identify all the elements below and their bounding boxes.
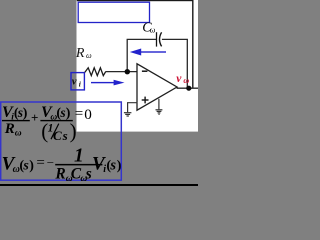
- svg-text:R: R: [54, 166, 65, 183]
- wire: capacitor to right: [162, 38, 188, 40]
- blue current arrow (left) above op-amp: [130, 49, 166, 56]
- blue signal arrow (right) toward op-amp: [91, 80, 125, 86]
- eq2 fraction bar: [55, 164, 102, 166]
- svg-text:0: 0: [84, 106, 92, 123]
- svg-text:ω: ω: [15, 128, 22, 138]
- op-amp U1 triangle: [137, 64, 177, 110]
- svg-text:s: s: [109, 158, 116, 174]
- wire: feedback vertical down to output node: [186, 39, 188, 88]
- svg-text:ω: ω: [150, 25, 156, 34]
- ground (op-amp): [156, 110, 163, 115]
- svg-text:R: R: [4, 121, 15, 137]
- white schematic panel: [77, 0, 199, 132]
- wire: op-amp belly ground stem: [158, 99, 160, 110]
- resistor R1 zigzag: [85, 68, 106, 76]
- output label v_o (red): [176, 73, 189, 85]
- svg-text:C: C: [53, 128, 62, 143]
- gray page background: [0, 0, 198, 186]
- svg-text:s: s: [59, 105, 65, 120]
- svg-text:=: =: [75, 106, 83, 122]
- node: inverting input junction: [125, 69, 130, 74]
- svg-text:s: s: [62, 128, 68, 143]
- op-amp plus sign: [142, 99, 149, 101]
- svg-text:): ): [29, 159, 34, 174]
- equation callout box (blue border): [1, 102, 122, 180]
- bottom black border: [0, 184, 198, 186]
- capacitor C1 label C_w: [142, 20, 156, 35]
- node: output junction: [186, 86, 191, 91]
- wire: feedback horizontal to capacitor: [127, 38, 156, 40]
- svg-text:v: v: [176, 73, 182, 85]
- svg-text:ω: ω: [183, 76, 189, 85]
- svg-text:−: −: [47, 155, 54, 170]
- eq1 fraction bar 2: [40, 120, 72, 121]
- v_i text: [72, 76, 82, 89]
- svg-text:1: 1: [74, 146, 84, 167]
- svg-text:ω: ω: [86, 51, 92, 60]
- op-amp minus sign: [142, 70, 148, 72]
- wire: output: [177, 87, 198, 89]
- capacitor C1 right curved plate: [160, 32, 162, 46]
- svg-text:+: +: [31, 110, 38, 125]
- capacitor C1 left plate: [156, 32, 158, 46]
- equation 2: Vw(s) = -1/(RwCws) Vi(s): [2, 146, 122, 184]
- ground (non-inverting input): [124, 113, 131, 116]
- equation 1: Vi(s)/Rw + Vw(s)/(1/Cs) = 0: [2, 104, 92, 143]
- resistor R1 label R_w: [75, 46, 92, 61]
- svg-text:): ): [117, 159, 122, 174]
- wire top frame line: [77, 0, 194, 1]
- svg-text:v: v: [72, 76, 77, 88]
- svg-text:): ): [70, 119, 77, 143]
- blue callout box (empty, top): [78, 2, 149, 22]
- svg-text:=: =: [36, 155, 44, 171]
- eq1 fraction bar 1: [2, 120, 30, 121]
- wire right frame line: [192, 0, 193, 89]
- wire: non-inverting input to ground: [128, 103, 138, 113]
- wire: resistor to op-amp inverting input: [106, 71, 138, 73]
- source label box v_i: [71, 73, 84, 90]
- wire: feedback vertical from inverting node: [126, 39, 128, 71]
- svg-text:s: s: [85, 166, 92, 183]
- svg-text:): ): [23, 106, 28, 121]
- svg-text:R: R: [75, 46, 85, 61]
